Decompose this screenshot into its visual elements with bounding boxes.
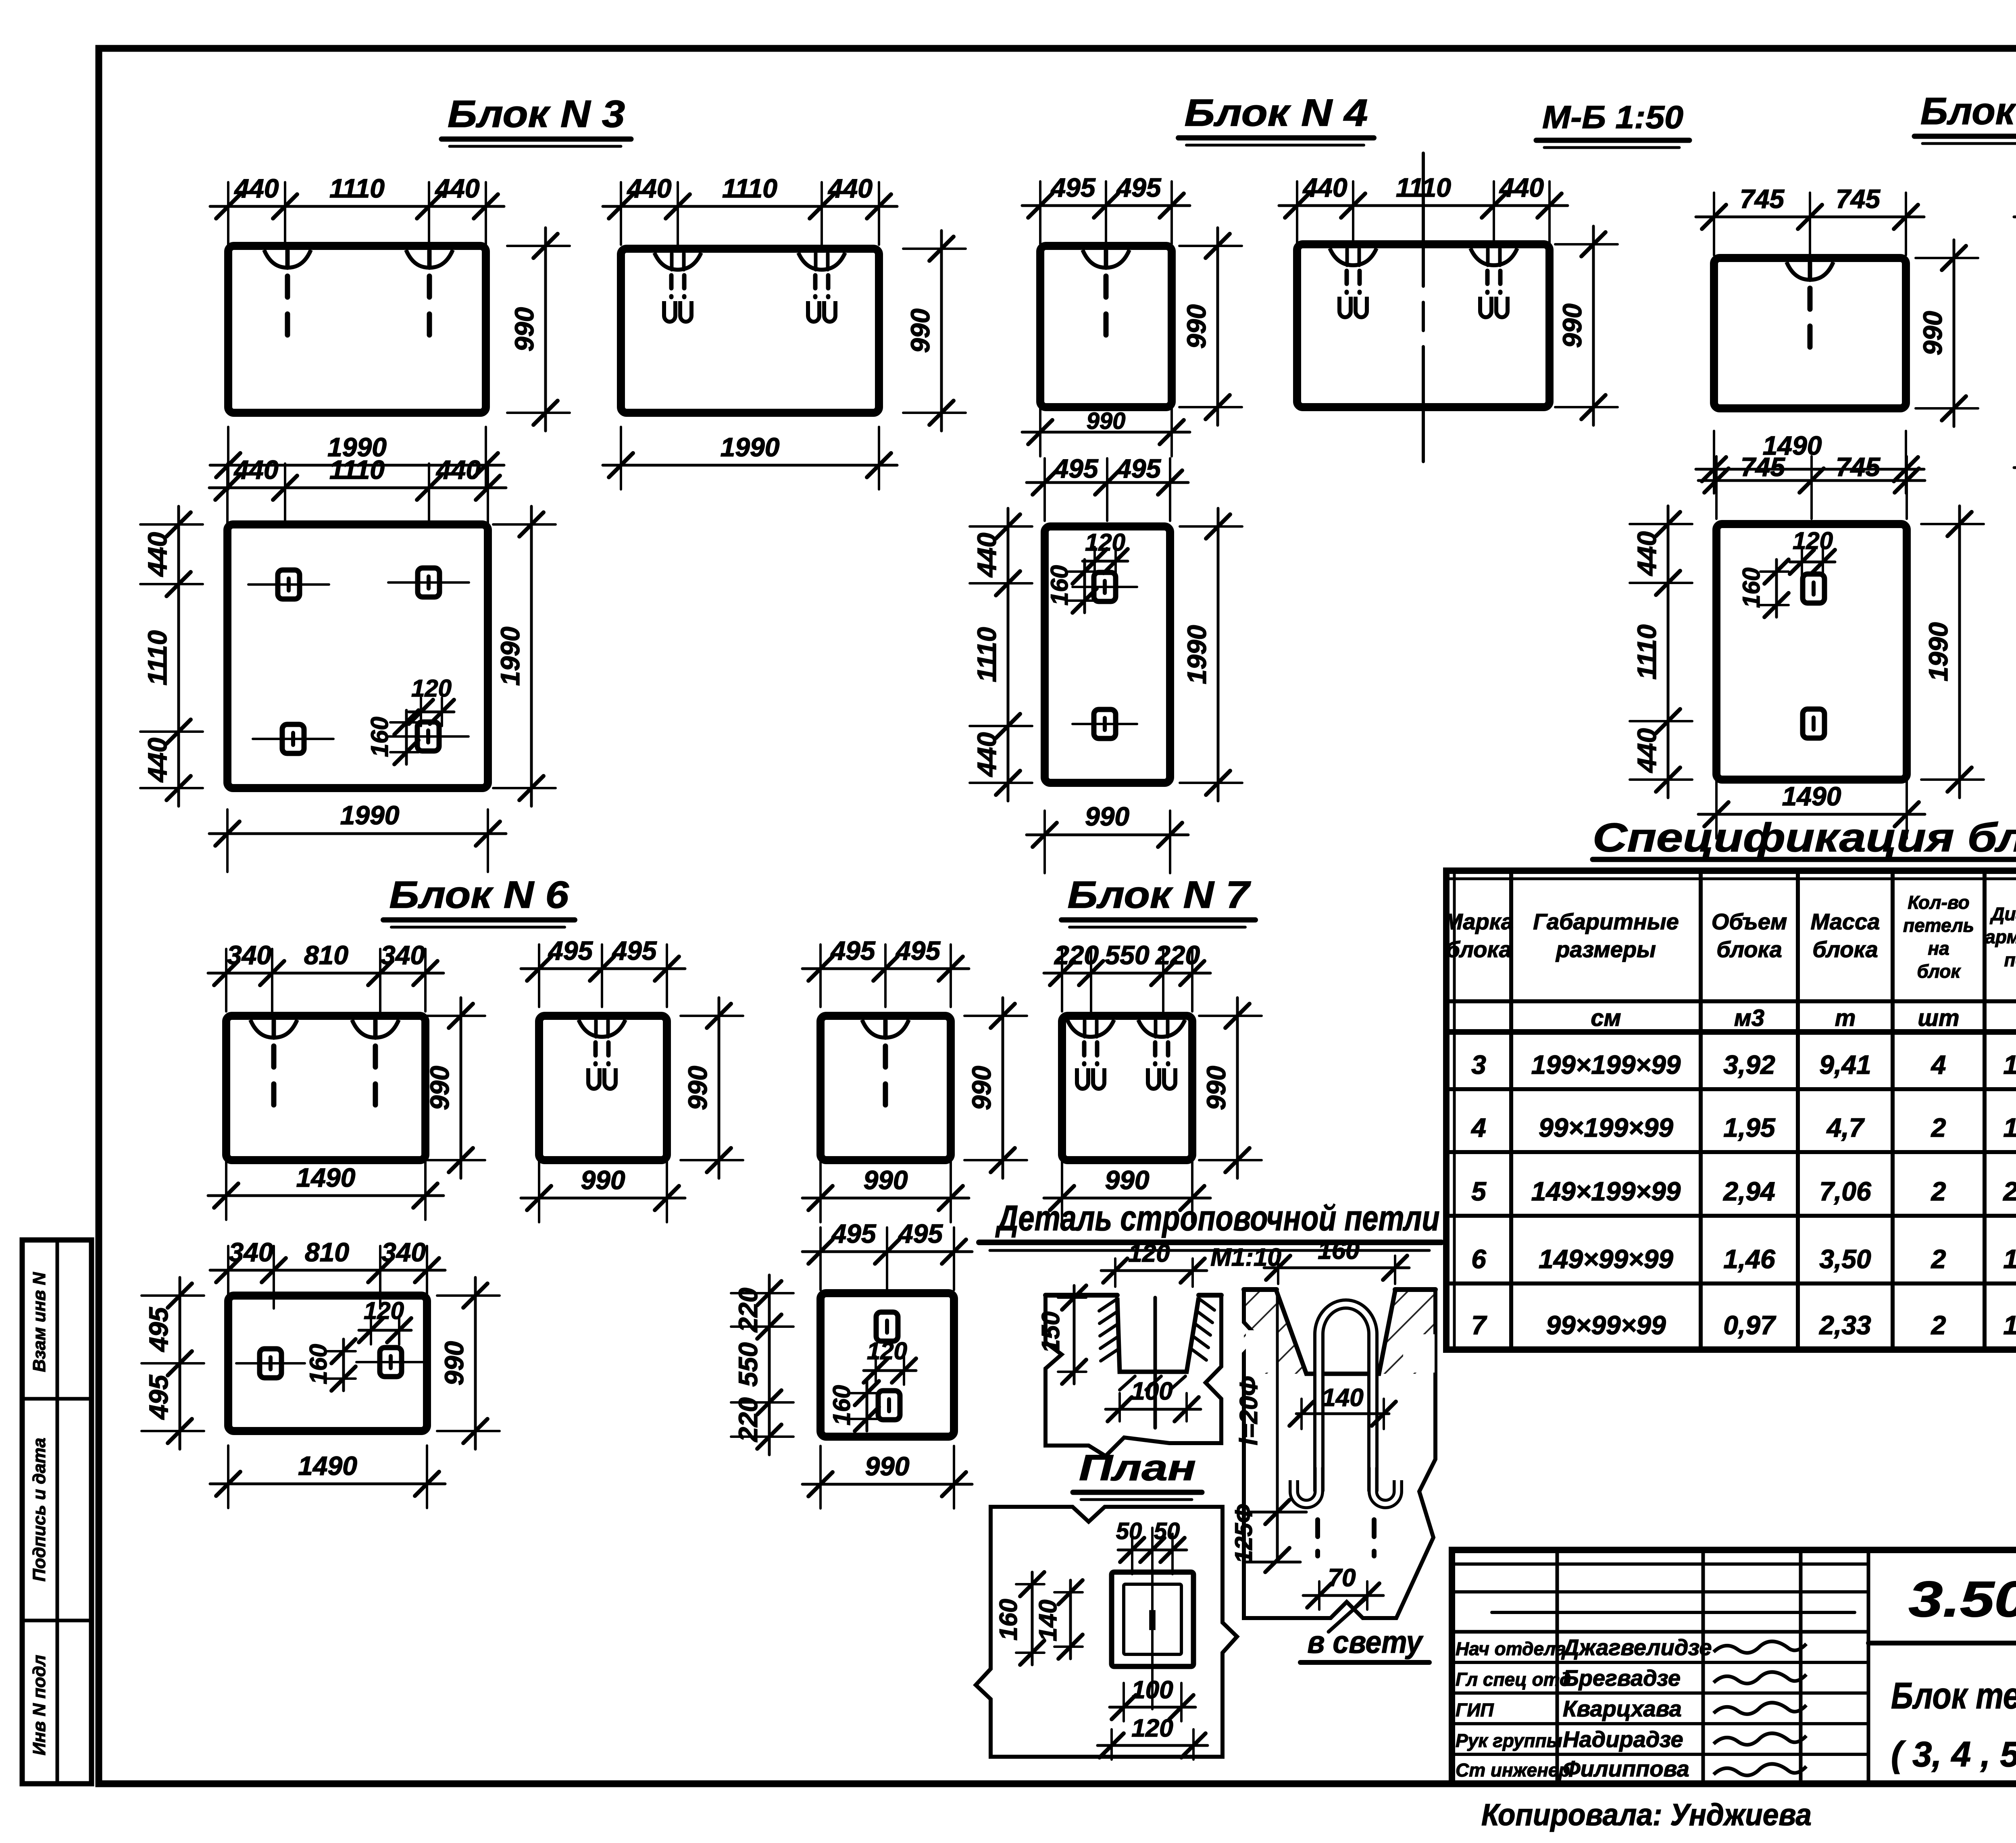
- svg-text:Диаметр: Диаметр: [1989, 903, 2016, 924]
- svg-text:см: см: [1591, 1005, 1621, 1031]
- svg-text:1990: 1990: [340, 800, 400, 830]
- svg-text:440: 440: [626, 173, 671, 203]
- svg-text:Гл спец отд: Гл спец отд: [1456, 1669, 1571, 1690]
- svg-text:160: 160: [1318, 1237, 1359, 1265]
- svg-text:Брегвадзе: Брегвадзе: [1563, 1665, 1681, 1691]
- svg-text:шт: шт: [1918, 1005, 1959, 1031]
- svg-text:3: 3: [1471, 1050, 1486, 1080]
- svg-text:Копировала: Унджиева: Копировала: Унджиева: [1481, 1798, 1812, 1832]
- svg-text:2: 2: [1931, 1176, 1946, 1206]
- svg-text:220: 220: [1054, 940, 1099, 970]
- svg-text:6: 6: [1471, 1244, 1487, 1274]
- svg-text:7,06: 7,06: [1819, 1176, 1872, 1206]
- svg-text:1110: 1110: [142, 630, 172, 685]
- svg-text:495: 495: [611, 936, 657, 965]
- svg-text:Ст инженер: Ст инженер: [1456, 1760, 1570, 1781]
- svg-text:120: 120: [1793, 527, 1833, 554]
- svg-text:( 3, 4 , 5 ,6и7 ): ( 3, 4 , 5 ,6и7 ): [1891, 1734, 2016, 1774]
- svg-text:220: 220: [733, 1397, 763, 1442]
- svg-text:блок: блок: [1917, 961, 1961, 982]
- svg-text:440: 440: [142, 532, 172, 577]
- svg-text:1110: 1110: [329, 455, 385, 485]
- svg-text:440: 440: [233, 455, 278, 485]
- svg-text:495: 495: [831, 1219, 876, 1248]
- svg-text:495: 495: [1053, 453, 1098, 483]
- svg-text:50: 50: [1154, 1518, 1180, 1544]
- svg-text:149×99×99: 149×99×99: [1539, 1244, 1673, 1274]
- svg-text:495: 495: [898, 1219, 943, 1248]
- svg-text:1110: 1110: [1632, 624, 1662, 680]
- svg-text:Габаритные: Габаритные: [1533, 909, 1679, 934]
- svg-text:на: на: [1928, 938, 1949, 959]
- svg-text:70: 70: [1328, 1564, 1356, 1592]
- svg-text:4,7: 4,7: [1826, 1113, 1865, 1142]
- svg-text:550: 550: [733, 1342, 763, 1387]
- svg-text:Подпись и дата: Подпись и дата: [29, 1438, 49, 1582]
- svg-text:99×99×99: 99×99×99: [1546, 1310, 1666, 1340]
- svg-text:160: 160: [1046, 565, 1073, 605]
- svg-text:810: 810: [304, 940, 348, 970]
- svg-text:4: 4: [1931, 1050, 1946, 1080]
- svg-text:440: 440: [142, 738, 172, 783]
- svg-text:495: 495: [548, 936, 593, 965]
- svg-text:990: 990: [905, 308, 935, 353]
- svg-text:петель: петель: [1903, 915, 1974, 936]
- svg-text:440: 440: [435, 455, 481, 485]
- svg-text:440: 440: [972, 533, 1002, 578]
- svg-text:Масса: Масса: [1811, 909, 1880, 934]
- svg-text:440: 440: [434, 173, 479, 203]
- svg-text:1990: 1990: [495, 626, 525, 686]
- svg-text:1,46: 1,46: [1723, 1244, 1776, 1274]
- svg-text:в свету: в свету: [1308, 1624, 1424, 1660]
- svg-text:блока: блока: [1812, 937, 1878, 962]
- svg-text:160: 160: [828, 1385, 855, 1425]
- svg-text:1,95: 1,95: [1723, 1113, 1776, 1142]
- svg-text:1110: 1110: [1396, 173, 1451, 202]
- svg-text:220: 220: [1155, 940, 1200, 970]
- svg-text:990: 990: [1181, 304, 1211, 349]
- svg-text:495: 495: [1050, 173, 1095, 202]
- svg-text:990: 990: [865, 1451, 909, 1481]
- svg-text:2,33: 2,33: [1818, 1310, 1871, 1340]
- svg-text:Блок N 4: Блок N 4: [1185, 92, 1368, 134]
- svg-text:Блок N 3: Блок N 3: [448, 93, 625, 135]
- svg-text:Блок N 6: Блок N 6: [389, 874, 569, 916]
- svg-text:18A I: 18A I: [2003, 1050, 2016, 1080]
- svg-text:Инв N подл: Инв N подл: [29, 1655, 49, 1755]
- svg-text:125Ф: 125Ф: [1230, 1504, 1257, 1563]
- svg-text:100: 100: [1131, 1377, 1173, 1405]
- svg-text:1490: 1490: [1782, 781, 1841, 811]
- svg-text:арматуры: арматуры: [1985, 926, 2016, 947]
- svg-text:120: 120: [1131, 1714, 1173, 1742]
- svg-text:1110: 1110: [722, 173, 777, 203]
- svg-text:160: 160: [366, 717, 393, 757]
- svg-text:Филиппова: Филиппова: [1563, 1756, 1689, 1781]
- svg-text:160: 160: [305, 1344, 332, 1384]
- svg-text:размеры: размеры: [1555, 937, 1656, 962]
- svg-text:Блок N 5: Блок N 5: [1920, 90, 2016, 133]
- svg-text:990: 990: [863, 1165, 908, 1195]
- svg-text:160: 160: [995, 1599, 1023, 1640]
- svg-text:Взам инв N: Взам инв N: [29, 1272, 49, 1372]
- svg-text:2: 2: [1931, 1310, 1946, 1340]
- svg-text:990: 990: [1557, 304, 1587, 348]
- svg-text:1110: 1110: [329, 173, 385, 203]
- svg-text:440: 440: [1632, 728, 1662, 773]
- svg-text:Блок N 7: Блок N 7: [1068, 874, 1252, 916]
- svg-text:9,41: 9,41: [1819, 1050, 1871, 1080]
- svg-text:990: 990: [581, 1165, 625, 1195]
- svg-text:199×199×99: 199×199×99: [1531, 1050, 1681, 1080]
- svg-text:120: 120: [867, 1338, 907, 1365]
- svg-text:745: 745: [1836, 184, 1881, 214]
- svg-text:160: 160: [1738, 568, 1765, 608]
- svg-text:440: 440: [1302, 173, 1347, 202]
- svg-text:990: 990: [966, 1066, 996, 1110]
- svg-text:7: 7: [1471, 1310, 1487, 1340]
- svg-text:м3: м3: [1734, 1005, 1764, 1031]
- svg-text:440: 440: [827, 173, 873, 203]
- svg-text:блока: блока: [1716, 937, 1782, 962]
- svg-text:495: 495: [1116, 173, 1161, 202]
- svg-text:4: 4: [1470, 1113, 1486, 1142]
- svg-text:149×199×99: 149×199×99: [1531, 1176, 1681, 1206]
- svg-text:3.501.1-135.1- 02: 3.501.1-135.1- 02: [1909, 1571, 2016, 1627]
- svg-text:1990: 1990: [1923, 622, 1953, 681]
- svg-text:440: 440: [1632, 531, 1662, 576]
- svg-text:120: 120: [1128, 1240, 1170, 1267]
- svg-text:2: 2: [1931, 1244, 1946, 1274]
- svg-text:150: 150: [1037, 1311, 1065, 1353]
- svg-text:Марка: Марка: [1444, 909, 1514, 934]
- svg-text:340: 340: [381, 1237, 426, 1267]
- svg-text:22A I: 22A I: [2002, 1176, 2016, 1206]
- svg-text:99×199×99: 99×199×99: [1539, 1113, 1673, 1142]
- svg-text:М-Б 1:50: М-Б 1:50: [1542, 99, 1683, 135]
- svg-text:140: 140: [1034, 1600, 1062, 1641]
- svg-text:990: 990: [1201, 1066, 1231, 1110]
- svg-text:Деталь строповочной петли: Деталь строповочной петли: [995, 1198, 1440, 1238]
- svg-text:810: 810: [305, 1237, 349, 1267]
- svg-text:120: 120: [411, 675, 452, 702]
- svg-text:Объем: Объем: [1712, 909, 1787, 934]
- svg-text:Спецификация блоков: Спецификация блоков: [1593, 815, 2016, 860]
- svg-text:Блок тела стены: Блок тела стены: [1891, 1675, 2016, 1716]
- svg-text:120: 120: [364, 1297, 404, 1324]
- svg-text:495: 495: [830, 936, 875, 965]
- svg-text:0,97: 0,97: [1723, 1310, 1776, 1340]
- svg-text:340: 340: [229, 1237, 273, 1267]
- svg-text:петли: петли: [2004, 949, 2016, 970]
- svg-text:340: 340: [381, 940, 425, 970]
- svg-text:Кварцхава: Кварцхава: [1563, 1696, 1682, 1721]
- svg-text:Рук группы: Рук группы: [1456, 1730, 1562, 1751]
- svg-text:1990: 1990: [1182, 625, 1212, 684]
- svg-text:План: План: [1079, 1448, 1196, 1488]
- svg-text:745: 745: [1741, 452, 1785, 482]
- svg-text:990: 990: [439, 1341, 469, 1385]
- svg-text:340: 340: [227, 940, 271, 970]
- svg-text:Кол-во: Кол-во: [1908, 892, 1969, 913]
- svg-text:120: 120: [1085, 529, 1125, 556]
- svg-text:Джагвелидзе: Джагвелидзе: [1561, 1635, 1712, 1660]
- svg-text:1990: 1990: [721, 432, 780, 462]
- svg-text:990: 990: [1085, 801, 1129, 831]
- svg-text:495: 495: [895, 936, 941, 965]
- svg-text:440: 440: [972, 732, 1002, 777]
- svg-text:745: 745: [1740, 184, 1785, 214]
- svg-text:990: 990: [1087, 408, 1126, 434]
- svg-text:745: 745: [1836, 452, 1881, 482]
- svg-text:550: 550: [1105, 940, 1149, 970]
- svg-text:990: 990: [1105, 1165, 1149, 1195]
- svg-text:440: 440: [1499, 173, 1544, 202]
- svg-text:3,92: 3,92: [1723, 1050, 1775, 1080]
- svg-text:ГИП: ГИП: [1456, 1699, 1494, 1720]
- svg-text:Надирадзе: Надирадзе: [1563, 1727, 1683, 1752]
- svg-text:Нач отдела: Нач отдела: [1456, 1638, 1566, 1659]
- svg-text:440: 440: [233, 173, 279, 203]
- svg-text:495: 495: [144, 1307, 173, 1352]
- svg-text:50: 50: [1116, 1518, 1142, 1544]
- svg-text:2: 2: [1931, 1113, 1946, 1142]
- svg-text:1110: 1110: [972, 627, 1002, 682]
- svg-text:18A I: 18A I: [2003, 1113, 2016, 1142]
- svg-text:495: 495: [1116, 453, 1161, 483]
- svg-text:2,94: 2,94: [1722, 1176, 1775, 1206]
- svg-text:990: 990: [1918, 311, 1947, 355]
- svg-text:990: 990: [425, 1066, 454, 1110]
- svg-text:990: 990: [683, 1066, 712, 1110]
- svg-text:100: 100: [1131, 1676, 1173, 1704]
- svg-text:16A I: 16A I: [2003, 1244, 2016, 1274]
- svg-text:1490: 1490: [298, 1451, 357, 1481]
- svg-text:14A I: 14A I: [2003, 1310, 2016, 1340]
- svg-text:т: т: [1835, 1005, 1856, 1031]
- svg-text:1490: 1490: [296, 1163, 356, 1192]
- svg-text:3,50: 3,50: [1819, 1244, 1871, 1274]
- svg-text:495: 495: [144, 1375, 173, 1420]
- svg-text:блока: блока: [1446, 937, 1511, 962]
- svg-text:l=20Ф: l=20Ф: [1235, 1376, 1263, 1445]
- svg-text:990: 990: [509, 307, 539, 352]
- svg-text:5: 5: [1471, 1176, 1487, 1206]
- svg-text:140: 140: [1322, 1384, 1363, 1412]
- svg-text:220: 220: [733, 1288, 763, 1333]
